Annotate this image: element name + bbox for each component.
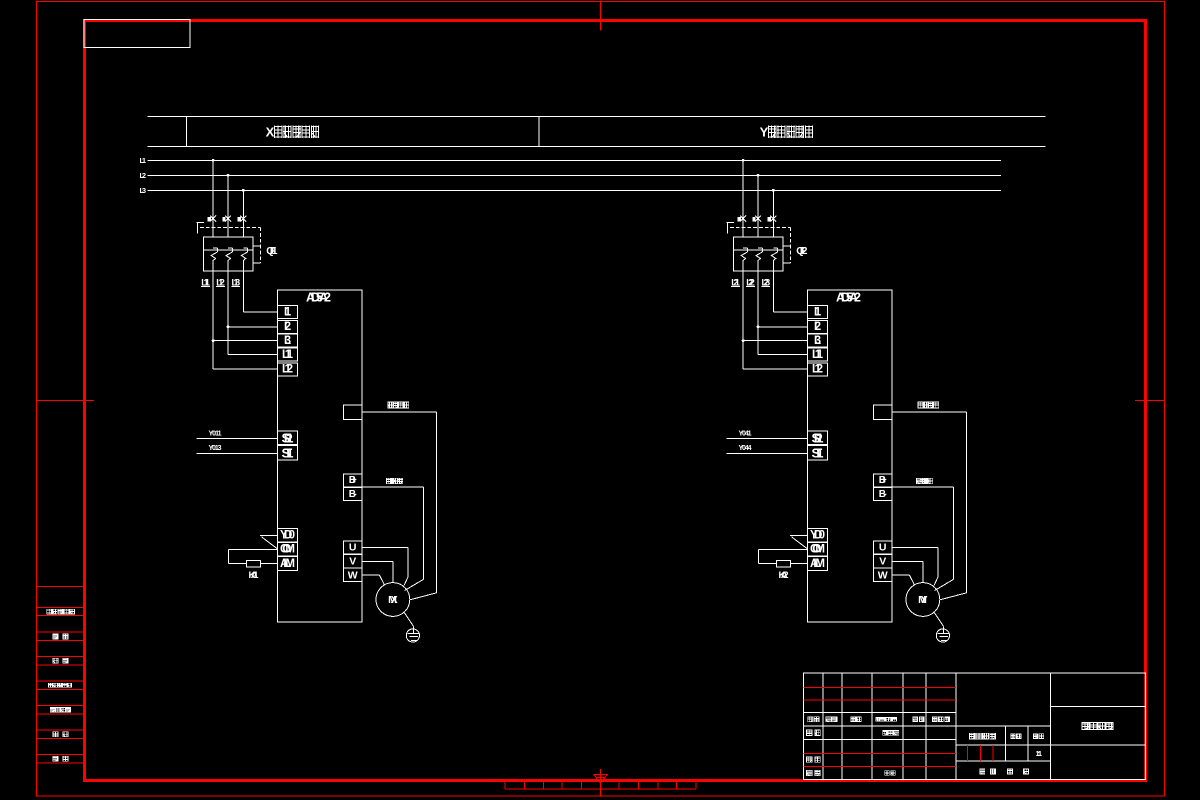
svg-text:U: U: [879, 542, 887, 554]
svg-text:L3: L3: [284, 335, 291, 347]
svg-text:COM: COM: [810, 544, 825, 556]
svg-text:ST1: ST1: [282, 446, 294, 461]
svg-text:V: V: [879, 556, 886, 568]
svg-text:Y011: Y011: [209, 431, 222, 438]
svg-text:Y044: Y044: [739, 445, 752, 452]
svg-text:ALM: ALM: [810, 558, 825, 570]
svg-text:L1: L1: [284, 306, 292, 318]
svg-text:L2: L2: [140, 171, 147, 180]
svg-text:KA2: KA2: [779, 570, 789, 581]
svg-text:X: X: [266, 125, 275, 140]
svg-text:L1: L1: [140, 156, 147, 165]
svg-text:1:1: 1:1: [1036, 749, 1043, 758]
svg-text:COM: COM: [280, 544, 295, 556]
svg-text:QF1: QF1: [266, 246, 278, 257]
svg-text:Y013: Y013: [209, 445, 222, 452]
svg-text:Y: Y: [760, 125, 769, 140]
svg-text:B-: B-: [349, 489, 357, 500]
svg-text:SP1: SP1: [812, 431, 824, 446]
svg-text:L11: L11: [282, 349, 294, 361]
svg-text:MY: MY: [918, 594, 928, 606]
svg-text:L2: L2: [814, 321, 821, 333]
svg-text:AD5-A2: AD5-A2: [306, 291, 331, 305]
svg-text:W: W: [878, 569, 888, 581]
svg-text:B-: B-: [879, 489, 887, 500]
svg-text:SP1: SP1: [282, 431, 294, 446]
svg-text:MX: MX: [388, 594, 398, 606]
svg-text:QF2: QF2: [796, 246, 808, 257]
svg-text:U: U: [349, 542, 357, 554]
svg-text:L2: L2: [284, 321, 291, 333]
svg-text:L12: L12: [282, 364, 293, 376]
svg-text:AD5-A2: AD5-A2: [836, 291, 861, 305]
svg-text:V: V: [349, 556, 356, 568]
svg-text:ALM: ALM: [280, 558, 295, 570]
svg-text:L11: L11: [812, 349, 824, 361]
svg-text:L12: L12: [812, 364, 823, 376]
svg-text:L3: L3: [140, 186, 147, 195]
svg-text:ST1: ST1: [812, 446, 824, 461]
svg-text:YD0: YD0: [810, 529, 825, 541]
svg-text:KA1: KA1: [249, 570, 260, 581]
svg-text:L3: L3: [814, 335, 821, 347]
svg-text:YD0: YD0: [280, 529, 295, 541]
svg-text:W: W: [348, 569, 358, 581]
svg-text:B+: B+: [349, 475, 357, 486]
svg-text:Y041: Y041: [739, 431, 752, 438]
svg-text:B+: B+: [879, 475, 887, 486]
svg-text:L1: L1: [814, 306, 822, 318]
